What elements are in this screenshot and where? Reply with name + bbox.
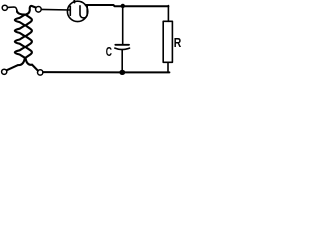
label C <box>106 45 112 59</box>
tube V1 envelope <box>67 1 87 21</box>
terminal T2 (bottom left) <box>2 69 7 74</box>
junction dot top <box>121 4 125 8</box>
capacitor C curved plate <box>115 48 130 50</box>
wire T3 to tube grid <box>41 8 70 11</box>
wire bottom rail <box>43 71 169 73</box>
tube V1 grid bar <box>69 6 71 15</box>
terminal T4 (transformer secondary bottom) <box>38 70 43 75</box>
inductor L2 (transformer secondary winding) <box>26 6 38 71</box>
inductor L1 (transformer primary winding) <box>7 11 25 70</box>
svg-text:R: R <box>174 35 182 50</box>
terminal T1 (top left) <box>2 5 7 10</box>
wire junction to capacitor <box>122 6 124 44</box>
wire rail corner to resistor <box>167 6 169 22</box>
junction dot bottom <box>119 70 125 75</box>
wire resistor to bottom rail <box>167 62 169 72</box>
tube V1 filament <box>80 5 87 18</box>
terminal T3 (transformer secondary top) <box>36 7 42 13</box>
wire T1 to primary top <box>8 7 17 12</box>
wire capacitor to bottom rail <box>121 50 123 73</box>
svg-text:C: C <box>106 45 112 59</box>
wire top rail <box>86 5 169 6</box>
tube V1 apex lead tick <box>73 0 75 3</box>
resistor R body <box>163 21 172 62</box>
label R <box>174 35 182 50</box>
capacitor C top plate <box>115 44 129 46</box>
